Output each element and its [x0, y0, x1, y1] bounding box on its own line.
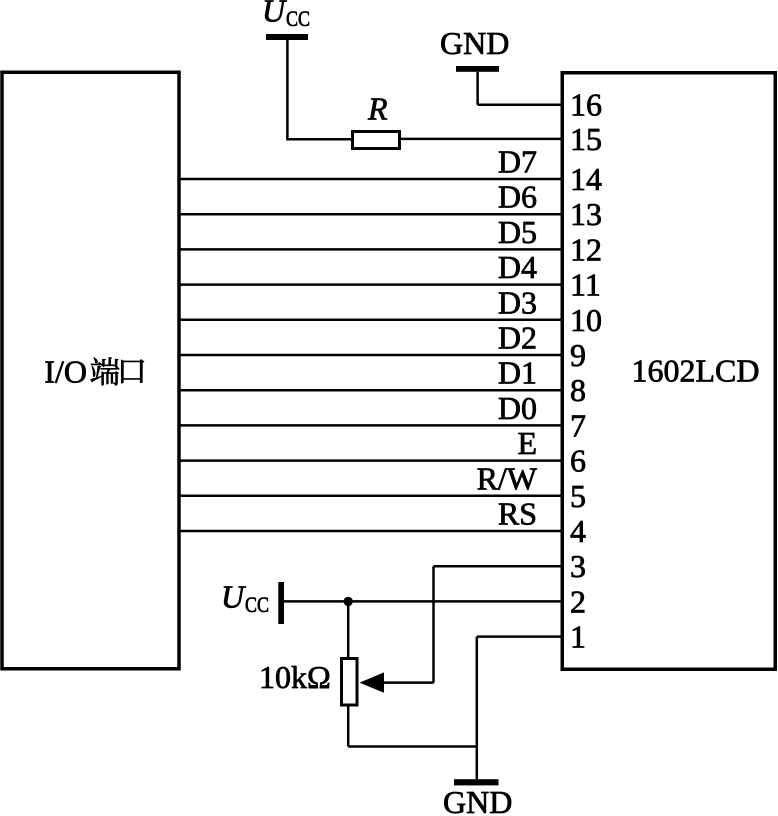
- svg-text:14: 14: [570, 161, 602, 197]
- wire potentiometer bottom lead: [347, 705, 350, 747]
- wire GND to pin 16: [478, 103, 562, 106]
- svg-text:6: 6: [570, 443, 586, 479]
- wire junction down to potentiometer: [347, 601, 350, 658]
- wire D2 from I/O port to pin 9: [179, 354, 562, 357]
- svg-text:D7: D7: [498, 144, 537, 180]
- wire D4 from I/O port to pin 11: [179, 283, 562, 286]
- svg-text:9: 9: [570, 337, 586, 373]
- svg-text:I/O: I/O: [44, 354, 87, 390]
- svg-text:5: 5: [570, 478, 586, 514]
- wire R/W from I/O port to pin 5: [179, 495, 562, 498]
- svg-text:13: 13: [570, 196, 602, 232]
- wire D7 from I/O port to pin 14: [179, 178, 562, 181]
- wire pin 3: [434, 565, 563, 568]
- wire D6 from I/O port to pin 13: [179, 213, 562, 216]
- svg-text:15: 15: [570, 121, 602, 157]
- box U1: I/O port (I/O端口): [2, 72, 179, 669]
- wire pin 1: [477, 635, 562, 638]
- svg-text:U: U: [262, 0, 287, 29]
- svg-text:11: 11: [570, 267, 601, 303]
- wire Ucc to resistor R left terminal: [286, 138, 352, 141]
- svg-text:D6: D6: [498, 179, 537, 215]
- svg-text:3: 3: [570, 548, 586, 584]
- junction node on pin 2 wire: [344, 597, 353, 606]
- wire D1 from I/O port to pin 8: [179, 389, 562, 392]
- svg-text:12: 12: [570, 231, 602, 267]
- svg-text:D5: D5: [498, 214, 537, 250]
- wire D5 from I/O port to pin 12: [179, 248, 562, 251]
- svg-text:10: 10: [570, 302, 602, 338]
- label I/O端口: [44, 354, 144, 390]
- svg-text:RS: RS: [498, 496, 537, 532]
- wire Ucc to pin 2: [284, 600, 562, 603]
- svg-text:CC: CC: [245, 592, 269, 617]
- wiper arrow into potentiometer: [360, 672, 434, 692]
- wire D0 from I/O port to pin 7: [179, 424, 562, 427]
- wire resistor R to pin 15: [400, 138, 563, 141]
- wire wiper up to pin 3: [432, 566, 435, 682]
- svg-text:CC: CC: [286, 6, 310, 31]
- svg-text:E: E: [517, 425, 537, 461]
- wire GND lead down: [476, 72, 479, 105]
- svg-text:D2: D2: [498, 320, 537, 356]
- svg-text:GND: GND: [443, 784, 512, 816]
- svg-text:U: U: [221, 579, 246, 615]
- svg-text:2: 2: [570, 583, 586, 619]
- wire Ucc lead down to resistor level: [286, 40, 289, 139]
- resistor R: [353, 132, 400, 149]
- svg-text:R/W: R/W: [477, 460, 538, 496]
- wire pin 1 down to GND: [476, 637, 479, 780]
- wire pot bottom to ground rail: [348, 745, 477, 748]
- wire E from I/O port to pin 6: [179, 459, 562, 462]
- power Ucc (bottom): [221, 579, 284, 625]
- svg-text:GND: GND: [440, 25, 509, 61]
- svg-text:1602LCD: 1602LCD: [632, 353, 760, 389]
- svg-text:7: 7: [570, 407, 586, 443]
- svg-text:D4: D4: [498, 249, 537, 285]
- ground GND (top): [440, 25, 509, 72]
- svg-text:R: R: [367, 91, 388, 127]
- svg-text:10kΩ: 10kΩ: [259, 659, 331, 695]
- svg-text:4: 4: [570, 513, 586, 549]
- svg-text:D1: D1: [498, 355, 537, 391]
- power Ucc (top): [262, 0, 310, 40]
- svg-text:D0: D0: [498, 390, 537, 426]
- box U2: 1602LCD module: [562, 73, 775, 670]
- ground GND (bottom): [443, 779, 512, 816]
- svg-text:16: 16: [570, 87, 602, 123]
- svg-text:1: 1: [570, 619, 586, 655]
- potentiometer RP 10k body: [342, 659, 358, 706]
- wire RS from I/O port to pin 4: [179, 530, 562, 533]
- wire D3 from I/O port to pin 10: [179, 319, 562, 322]
- svg-text:8: 8: [570, 372, 586, 408]
- svg-text:D3: D3: [498, 284, 537, 320]
